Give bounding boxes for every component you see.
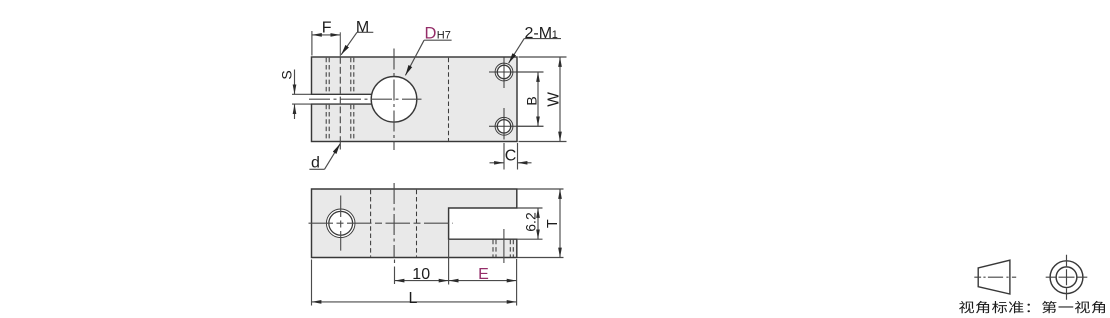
label M (leader): [341, 19, 373, 55]
svg-text:D: D: [425, 25, 437, 43]
svg-text:1: 1: [552, 29, 558, 41]
label 2-M1 (leader to tapped hole): [509, 25, 561, 63]
top view: clamp block body: [312, 57, 518, 142]
centerline: bore D axis (front): [393, 183, 395, 258]
hidden line: slot depth edge: [448, 58, 450, 141]
svg-text:d: d: [311, 155, 320, 172]
clamp screw hole (front): thread + minor circles: [326, 209, 355, 238]
svg-text:H7: H7: [437, 30, 451, 42]
svg-text:W: W: [546, 92, 563, 107]
dimension T (block thickness): [518, 189, 564, 258]
svg-text:6.2: 6.2: [523, 212, 539, 232]
centerline: slot horizontal axis: [309, 98, 422, 100]
centerline: 2-M1 axis (front): [503, 229, 505, 263]
front view: block body with slit: [312, 189, 517, 258]
hidden lines: bore D walls (front): [371, 190, 417, 257]
dimension C (hole edge distance): [490, 143, 532, 170]
dimension E (slit depth): [449, 259, 517, 306]
label d (leader to clamp hole): [309, 144, 340, 172]
hidden lines: clamp screw counterbore (left pair): [326, 58, 329, 141]
bore D (large hole): [371, 77, 417, 123]
dimension 6.2 (slit width, front): [517, 208, 543, 239]
dimension 10 (bore axis to slit): [395, 240, 449, 285]
first-angle projection symbol: cone front view: [1046, 255, 1088, 300]
caption: viewing-angle standard, first angle (CJK glyph outlines): [959, 301, 1105, 314]
hidden lines: clamp screw thread (right pair): [351, 58, 354, 141]
dimension S (slot width): [278, 70, 311, 120]
dimension W (block width): [519, 57, 567, 142]
first-angle projection symbol: cone side view: [974, 260, 1016, 294]
svg-text:B: B: [523, 96, 539, 105]
dimension L (block length): [312, 260, 517, 307]
centerlines of clamp screw hole (front): [309, 196, 453, 251]
slot S opening (left face): [310, 94, 373, 104]
dimension B (hole pitch): [518, 72, 544, 126]
svg-text:2-M: 2-M: [525, 25, 553, 42]
svg-text:L: L: [409, 290, 418, 307]
hidden lines: 2-M1 tapped holes (front): [493, 240, 513, 257]
tapped hole 2-M1 lower: [489, 108, 544, 140]
label D H7 (leader to bore): [405, 25, 451, 76]
svg-text:10: 10: [412, 266, 430, 283]
svg-text:C: C: [505, 147, 517, 164]
tapped hole 2-M1 upper: thread circle: [489, 58, 544, 89]
centerline: bore D vertical axis: [393, 49, 395, 151]
svg-text:F: F: [322, 20, 332, 37]
dimension F: [312, 20, 340, 56]
svg-text:E: E: [478, 266, 489, 283]
centerline: clamp screw axis (M / d): [339, 57, 341, 142]
svg-text:M: M: [356, 19, 369, 36]
svg-text:S: S: [278, 70, 294, 79]
svg-text:T: T: [545, 219, 561, 228]
